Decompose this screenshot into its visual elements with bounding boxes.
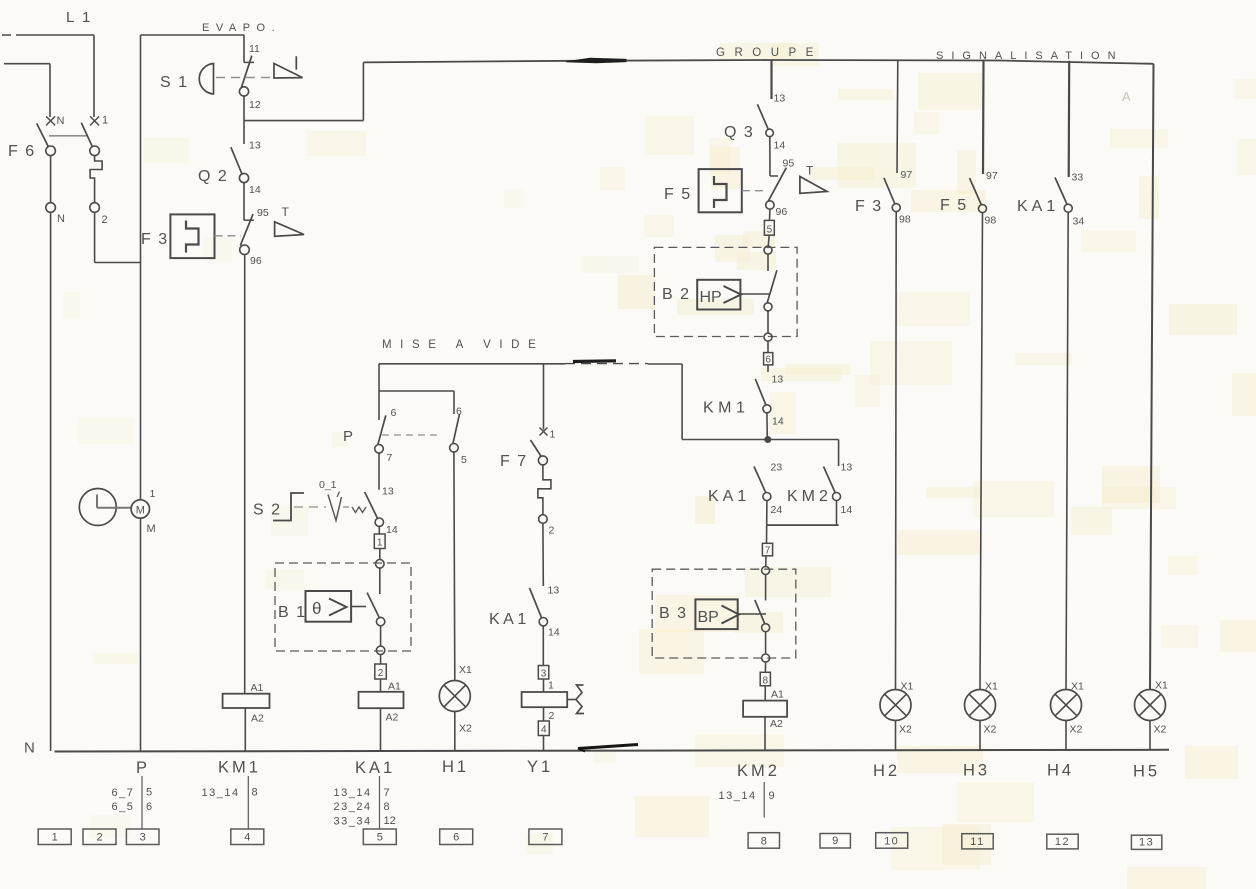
svg-text:M: M [136, 505, 145, 517]
B3 label [659, 605, 688, 622]
svg-text:B 2: B 2 [662, 286, 691, 303]
pin 14 [249, 184, 261, 196]
svg-text:12: 12 [1055, 836, 1070, 848]
wire bus right end to lamp H5 [1150, 64, 1154, 690]
device label H4 [1047, 762, 1074, 780]
svg-text:Y1: Y1 [527, 758, 553, 776]
F5 dashed actuation link [742, 190, 764, 192]
sheet box 11 [962, 834, 993, 849]
svg-text:1: 1 [52, 832, 58, 844]
svg-text:Q 3: Q 3 [724, 124, 754, 141]
svg-text:1: 1 [150, 488, 156, 500]
Q2 label [198, 168, 228, 185]
B2 upper terminal [764, 235, 772, 254]
page joint smudge on rail [573, 359, 616, 363]
terminal box 3 [538, 626, 549, 680]
coil KM2 terminal A2 [770, 718, 783, 730]
svg-text:23_24: 23_24 [334, 801, 372, 813]
svg-text:14: 14 [841, 504, 853, 516]
wire into B1 [376, 549, 385, 569]
B3 BP pressure sensor box [695, 599, 739, 629]
F3 signal label [855, 198, 883, 215]
node EVAPO label [202, 22, 281, 34]
svg-text:98: 98 [985, 215, 997, 227]
svg-text:T: T [282, 205, 290, 219]
wire EVAPO feeder [141, 35, 245, 62]
page joint mark on N bus [578, 745, 638, 752]
svg-text:13: 13 [249, 140, 261, 152]
svg-text:KM2: KM2 [737, 762, 780, 780]
svg-text:BP: BP [698, 609, 719, 626]
svg-text:H4: H4 [1047, 762, 1074, 780]
svg-text:P: P [136, 759, 150, 777]
svg-text:L 1: L 1 [66, 9, 92, 26]
wire H2 to N bus [895, 721, 897, 751]
sheet box 5 [363, 829, 396, 845]
coil KM1 terminal A1 [251, 682, 264, 694]
B1 dashed enclosure [275, 563, 411, 651]
svg-text:8: 8 [252, 787, 258, 799]
wire H1 to N bus [454, 712, 456, 752]
svg-text:2: 2 [378, 668, 384, 679]
svg-text:97: 97 [901, 169, 913, 181]
T flag of F3 [275, 205, 304, 236]
node GROUPE title [716, 47, 823, 59]
svg-text:T: T [806, 164, 814, 178]
terminal box 1 [374, 526, 385, 548]
wire bus to F5 signal contact [982, 60, 985, 174]
sheet box 8 [748, 833, 779, 849]
svg-text:8: 8 [384, 801, 390, 813]
F7 label [500, 453, 528, 470]
terminal box 5 [764, 209, 774, 235]
terminal box 6 [764, 341, 773, 366]
svg-text:A1: A1 [771, 689, 784, 701]
B1 lower terminal [376, 626, 384, 655]
wire P-5 down to H1 [453, 452, 456, 680]
coil KM2 [743, 701, 787, 717]
svg-text:96: 96 [776, 206, 788, 218]
svg-text:H3: H3 [963, 762, 990, 780]
device label KA1 [355, 759, 395, 777]
relay F5 thermal element box [699, 169, 742, 212]
KM1 contact label [703, 400, 749, 417]
pin 13 [249, 140, 261, 152]
svg-text:N: N [57, 213, 65, 225]
svg-text:S 1: S 1 [160, 74, 189, 91]
KM2 contact label [787, 488, 832, 505]
B2 contact [740, 254, 777, 311]
fuse-switch F6 pole 1 with fuse element [81, 115, 108, 227]
wire F3-98 to lamp H2 [895, 212, 898, 690]
svg-text:B 3: B 3 [659, 605, 688, 622]
svg-text:EVAPO.: EVAPO. [202, 22, 281, 34]
svg-text:10: 10 [884, 835, 899, 847]
terminal box 2 [375, 655, 387, 680]
svg-text:N: N [24, 740, 35, 757]
terminal box 8 [760, 662, 770, 686]
svg-text:X2: X2 [1154, 724, 1167, 736]
wire KA1-34 to lamp H4 [1066, 212, 1068, 689]
svg-text:8: 8 [763, 675, 769, 686]
wire P column (programmer) [140, 35, 142, 751]
S2 position label 0-1 [319, 479, 337, 491]
wire F3-96 down to KM1 coil [244, 255, 246, 694]
svg-text:13: 13 [772, 374, 784, 386]
KA1 contact label (groupe) [708, 488, 750, 505]
wire KM2 coil to N bus [764, 717, 766, 751]
svg-text:95: 95 [783, 158, 795, 170]
svg-text:KM2: KM2 [787, 488, 832, 505]
svg-text:9: 9 [832, 835, 838, 847]
svg-text:A: A [1122, 89, 1131, 104]
sheet box 10 [876, 833, 908, 849]
svg-text:H1: H1 [442, 758, 469, 776]
S2 selector V symbol [328, 492, 342, 521]
svg-text:13: 13 [382, 486, 394, 498]
B1 thermostat sensor box [306, 591, 352, 622]
F5 signal label [940, 197, 968, 214]
svg-text:KA1: KA1 [708, 488, 750, 505]
B2 lower terminal [764, 311, 772, 341]
svg-text:34: 34 [1073, 216, 1085, 228]
node L1 label [66, 9, 92, 26]
wire Y1 to N bus [543, 736, 545, 752]
svg-text:5: 5 [377, 832, 383, 844]
coil KM1 [223, 694, 270, 708]
svg-text:1: 1 [548, 680, 554, 692]
KA1 contact label [489, 611, 530, 628]
wire KM1 coil to N bus [244, 708, 246, 751]
svg-text:X2: X2 [899, 724, 912, 736]
sheet box 7 [529, 829, 562, 845]
device label KM1 [218, 759, 261, 777]
coil KA1 terminal A2 [386, 712, 399, 724]
contact P pole 6-5 [450, 406, 467, 467]
svg-text:14: 14 [249, 184, 261, 196]
svg-text:13: 13 [548, 585, 560, 597]
svg-text:KM1: KM1 [703, 400, 749, 417]
wire N bus [55, 750, 1170, 752]
device label H3 [963, 762, 990, 780]
contact F3 97-98 [884, 169, 912, 226]
svg-text:KA1: KA1 [355, 759, 395, 777]
F6 mechanical link [49, 135, 88, 137]
svg-text:5: 5 [461, 454, 467, 466]
device label KM2 [737, 762, 780, 780]
svg-text:2: 2 [102, 214, 108, 226]
svg-text:F 3: F 3 [141, 231, 169, 248]
svg-text:M: M [147, 523, 156, 535]
svg-text:7: 7 [765, 546, 771, 557]
svg-text:96: 96 [250, 255, 262, 267]
node MISE A VIDE title [382, 339, 544, 351]
svg-text:2: 2 [549, 710, 555, 722]
B2 label [662, 286, 691, 303]
svg-text:A1: A1 [388, 681, 401, 693]
S2 dashed link with spring [294, 507, 366, 513]
svg-text:X2: X2 [459, 723, 472, 735]
svg-text:0_1: 0_1 [319, 479, 337, 491]
svg-text:N: N [57, 115, 65, 127]
device label H2 [873, 762, 900, 780]
wire bus to Q3 [770, 60, 772, 99]
wire P-7 down to S2 [378, 453, 380, 490]
svg-text:6: 6 [391, 407, 397, 419]
wire F7 to KA1 contact [542, 523, 544, 586]
pin 12 [249, 99, 261, 111]
fuse-switch F6 pole N [37, 115, 65, 225]
wire F6-N pole down to N bus [50, 212, 52, 751]
coil KA1 terminal A1 [381, 679, 402, 693]
svg-text:A2: A2 [251, 713, 264, 725]
S1 pushbutton head [199, 64, 272, 95]
svg-text:14: 14 [772, 416, 784, 428]
contact Q3 (NO) [757, 93, 785, 152]
S2 lever bracket [273, 493, 304, 521]
pin 96 [250, 255, 262, 267]
Q3 label [724, 124, 754, 141]
svg-text:KA1: KA1 [1017, 198, 1059, 215]
wire MISE branch to P contacts [379, 364, 454, 420]
svg-text:13_14: 13_14 [719, 790, 757, 802]
svg-text:14: 14 [548, 627, 560, 639]
svg-text:23: 23 [771, 462, 783, 474]
svg-text:14: 14 [386, 524, 398, 536]
wire F5-98 to lamp H3 [980, 213, 983, 690]
svg-text:13: 13 [1139, 837, 1154, 849]
wire H3 to N bus [979, 721, 981, 751]
B3 upper terminal [762, 556, 770, 575]
node N label [24, 740, 35, 757]
wire KM1 contact to junction [766, 413, 768, 440]
T flag of F5 [800, 164, 827, 194]
F3 dashed actuation link [215, 235, 242, 237]
coil KM1 terminal A2 [251, 713, 264, 725]
coil KM2 terminal A1 [765, 686, 784, 701]
wire MISE A VIDE rail [379, 363, 682, 365]
B1 label [278, 604, 307, 621]
svg-text:A2: A2 [386, 712, 399, 724]
cross-ref KM1 [202, 776, 258, 829]
wire N top feed [4, 64, 50, 117]
svg-text:12: 12 [249, 99, 261, 111]
svg-text:13_14: 13_14 [202, 787, 240, 799]
svg-text:98: 98 [899, 214, 911, 226]
B2 dashed enclosure [654, 247, 797, 336]
svg-text:F 3: F 3 [855, 198, 883, 215]
device label H5 [1133, 763, 1160, 781]
device label Y1 [527, 758, 553, 776]
wire H4 to N bus [1065, 721, 1067, 751]
svg-text:7: 7 [387, 452, 393, 464]
junction node [765, 437, 771, 443]
svg-text:33: 33 [1072, 172, 1084, 184]
contact F3 95-96 (NC thermal) [240, 214, 254, 255]
coil Y1 terminal 2 [544, 708, 555, 722]
F5 label [664, 186, 692, 203]
B3 contact [738, 575, 770, 632]
lamp H5 [1135, 680, 1169, 736]
svg-text:14: 14 [774, 140, 786, 152]
svg-text:θ: θ [312, 599, 321, 618]
wire L1 top feed [2, 35, 94, 117]
svg-text:1: 1 [102, 115, 108, 127]
wire Q2 to F3 contact [243, 183, 245, 221]
svg-text:33_34: 33_34 [334, 816, 372, 828]
wire S1 output to right riser [244, 62, 363, 144]
svg-text:X2: X2 [1070, 724, 1083, 736]
contact Q2 (NO) [231, 147, 249, 182]
sheet box 6 [440, 829, 473, 845]
wire KA1-24 join [767, 501, 839, 526]
sheet box 4 [231, 829, 264, 845]
contact KM1 13-14 [755, 365, 784, 428]
contact KA1 23-24 [754, 462, 782, 517]
S2 label [253, 502, 282, 519]
svg-text:13: 13 [841, 462, 853, 474]
svg-text:S 2: S 2 [253, 502, 282, 519]
terminal box 4 [538, 721, 549, 736]
svg-text:1: 1 [377, 538, 383, 549]
coil Y1 terminal 1 [544, 679, 555, 692]
svg-text:95: 95 [257, 207, 269, 219]
svg-text:6: 6 [765, 355, 771, 366]
svg-text:13_14: 13_14 [334, 787, 372, 799]
svg-text:A2: A2 [770, 718, 783, 730]
svg-text:F 5: F 5 [940, 197, 968, 214]
svg-text:7: 7 [384, 787, 390, 799]
page joint smudge on bus [566, 58, 626, 63]
sheet box 12 [1047, 834, 1078, 849]
svg-text:6: 6 [453, 832, 459, 844]
wire MISE rail to F7 [543, 364, 545, 430]
cross-ref KM2 [719, 782, 775, 818]
contact F5 95-96 (NC thermal) [766, 158, 795, 219]
coil KA1 [359, 692, 404, 708]
svg-text:13: 13 [774, 93, 786, 105]
svg-text:X1: X1 [1155, 680, 1168, 692]
lamp H2 [880, 681, 914, 736]
contact KA1 13-14 [530, 585, 560, 639]
pin 95 [257, 207, 269, 219]
svg-text:2: 2 [96, 832, 102, 844]
wire F6-1 pole to P column [95, 212, 141, 262]
svg-text:3: 3 [140, 832, 146, 844]
svg-text:11: 11 [970, 836, 984, 848]
svg-text:F 7: F 7 [500, 453, 528, 470]
svg-text:MISE A VIDE: MISE A VIDE [382, 339, 544, 351]
svg-text:F 5: F 5 [664, 186, 692, 203]
coil Y1 (solenoid valve) [522, 685, 584, 714]
terminal box 7 [762, 525, 772, 557]
svg-text:HP: HP [700, 289, 722, 306]
B2 HP pressure sensor box [697, 280, 741, 310]
svg-text:24: 24 [771, 504, 783, 516]
B3 lower terminal [762, 632, 770, 662]
svg-text:H2: H2 [873, 762, 900, 780]
sheet box 9 [820, 834, 850, 849]
B1 contact [351, 568, 385, 626]
svg-text:3: 3 [541, 669, 547, 680]
svg-text:2: 2 [549, 525, 555, 537]
B3 dashed enclosure [652, 569, 796, 658]
svg-text:7: 7 [542, 832, 548, 844]
svg-text:12: 12 [384, 815, 396, 827]
cross-ref KA1 [334, 776, 396, 829]
contact KA1 33-34 [1055, 172, 1084, 228]
svg-text:Q 2: Q 2 [198, 168, 228, 185]
svg-text:9: 9 [769, 790, 775, 802]
svg-text:KA1: KA1 [489, 611, 530, 628]
svg-text:GROUPE: GROUPE [716, 47, 823, 59]
svg-text:X1: X1 [459, 664, 472, 676]
S1 manual-actuation flag [274, 56, 303, 78]
wire MISE rail into right page [682, 364, 839, 440]
cross-ref P [112, 776, 153, 829]
contact F5 97-98 [970, 170, 998, 227]
timer clock symbol [79, 489, 131, 526]
wire control bus top [363, 60, 1153, 64]
lamp H3 [965, 681, 999, 736]
svg-text:5: 5 [767, 225, 773, 236]
svg-text:11: 11 [249, 43, 260, 55]
svg-text:KM1: KM1 [218, 759, 261, 777]
svg-text:4: 4 [541, 725, 547, 736]
wire H5 to N bus [1149, 721, 1151, 750]
svg-text:4: 4 [244, 832, 250, 844]
wire KA1 coil to N bus [380, 708, 382, 751]
sheet box 1 [38, 829, 71, 845]
sheet box 2 [83, 829, 116, 845]
wire bus to F3 signal contact [896, 60, 899, 173]
relay F3 thermal element box [170, 214, 214, 258]
contact KM2 13-14 (hold) [824, 440, 853, 526]
fuse-switch F6 label [8, 143, 36, 160]
motor M of programmer [131, 488, 156, 535]
node SIGNALISATION title [936, 50, 1124, 62]
svg-text:5: 5 [146, 787, 152, 799]
lamp H4 [1051, 681, 1085, 736]
F3 label [141, 231, 169, 248]
device label P [136, 759, 150, 777]
svg-text:8: 8 [761, 835, 767, 847]
sheet box 13 [1131, 835, 1161, 849]
svg-text:6_5: 6_5 [112, 801, 135, 813]
S1 label [160, 74, 189, 91]
faint A mark [1122, 89, 1131, 104]
lamp H1 [439, 664, 472, 735]
F7 fuse element [538, 465, 555, 537]
svg-text:97: 97 [986, 170, 998, 182]
wire Q3 to F5 contact [769, 137, 771, 176]
P contact label [343, 428, 353, 445]
svg-text:SIGNALISATION: SIGNALISATION [936, 50, 1124, 62]
svg-text:P: P [343, 428, 353, 445]
sheet box 3 [126, 829, 159, 845]
svg-text:X2: X2 [984, 724, 997, 736]
svg-text:6_7: 6_7 [112, 787, 135, 799]
svg-text:A1: A1 [251, 682, 264, 694]
wire bus to KA1 signal contact [1068, 61, 1071, 177]
P poles dashed link [382, 434, 441, 436]
contact P pole 6-7 [375, 407, 397, 464]
contact S1 (NC, pushbutton) [239, 56, 254, 96]
svg-text:1: 1 [550, 429, 556, 441]
contact F7 x1 [531, 428, 556, 465]
KA1 signal label [1017, 198, 1059, 215]
svg-text:H5: H5 [1133, 763, 1160, 781]
